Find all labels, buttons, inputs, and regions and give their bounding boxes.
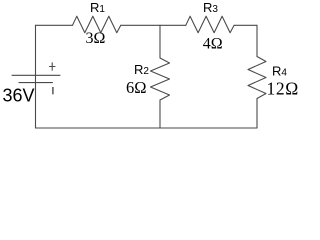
battery minus tick — [52, 87, 54, 94]
svg-text:R2: R2 — [134, 62, 149, 77]
svg-text:3Ω: 3Ω — [86, 30, 106, 47]
wire bottom — [36, 127, 258, 129]
svg-text:6Ω: 6Ω — [126, 78, 147, 97]
wire top-right segment — [234, 24, 257, 26]
wire middle-branch top segment — [159, 25, 161, 58]
wire left (through battery) — [35, 25, 37, 128]
svg-text:36V: 36V — [3, 86, 35, 106]
resistor R1 — [73, 16, 121, 33]
resistor R4 — [248, 57, 266, 99]
resistor R2 — [151, 58, 170, 100]
wire right-top segment — [256, 25, 258, 56]
battery plus sign — [51, 63, 53, 70]
battery V1 negative plate — [19, 82, 53, 84]
wire top-middle segment — [121, 24, 186, 26]
svg-text:4Ω: 4Ω — [203, 36, 223, 53]
svg-text:12Ω: 12Ω — [267, 79, 299, 99]
svg-text:R1: R1 — [90, 0, 105, 15]
battery V1 positive plate — [12, 74, 60, 76]
wire middle-branch bottom segment — [159, 100, 161, 128]
wire top-left segment — [36, 24, 73, 26]
svg-text:R3: R3 — [203, 0, 218, 15]
svg-text:R4: R4 — [272, 64, 287, 79]
resistor R3 — [186, 16, 234, 33]
wire right-bottom segment — [256, 99, 258, 129]
